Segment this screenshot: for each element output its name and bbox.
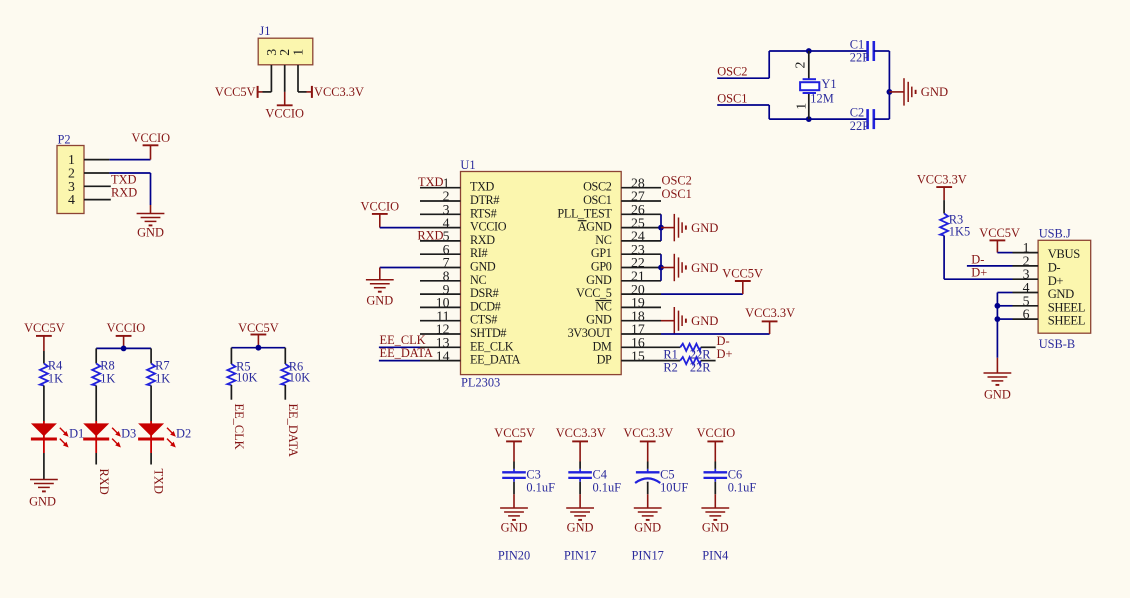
- svg-text:1K5: 1K5: [949, 225, 970, 239]
- svg-text:3V3OUT: 3V3OUT: [568, 326, 613, 340]
- wire P2 pin1 to VCCIO: [84, 159, 151, 161]
- svg-text:1: 1: [794, 103, 809, 110]
- wire R7 to D2: [150, 386, 152, 422]
- svg-text:OSC1: OSC1: [717, 91, 747, 105]
- power port VCCIO at C6: [697, 426, 736, 461]
- svg-text:0.1uF: 0.1uF: [728, 480, 757, 494]
- wire U1 pin4: [380, 227, 420, 229]
- LED D1: [31, 421, 84, 453]
- power port VCC5V at C3: [494, 426, 535, 461]
- U1 pin 2 DTR#: [420, 189, 499, 207]
- U1 pin 26 PLL_TEST: [557, 202, 661, 220]
- wire C6 to ground: [714, 482, 716, 508]
- svg-text:GND: GND: [984, 387, 1011, 401]
- svg-text:GP1: GP1: [591, 246, 612, 260]
- svg-text:RXD: RXD: [417, 228, 443, 242]
- svg-text:VCCIO: VCCIO: [697, 426, 736, 440]
- ground at C3: [500, 508, 528, 535]
- USB pin 4 GND: [1013, 280, 1075, 301]
- ground at C4: [566, 508, 594, 535]
- svg-text:D-: D-: [971, 252, 984, 266]
- U1 pin 16 DM: [593, 335, 661, 353]
- svg-text:VCCIO: VCCIO: [107, 321, 146, 335]
- wire EE_DATA at U1 pin14: [379, 360, 420, 362]
- svg-text:DM: DM: [593, 339, 612, 353]
- power port VCCIO at P2: [132, 131, 171, 160]
- svg-text:1K: 1K: [100, 372, 115, 386]
- USB pin 1 VBUS: [1013, 240, 1081, 261]
- resistor R4 1K: [40, 351, 63, 386]
- svg-text:R8: R8: [100, 359, 114, 373]
- svg-text:D3: D3: [121, 426, 136, 440]
- svg-text:VCC5V: VCC5V: [24, 321, 65, 335]
- power port VCC3.3V at C5: [623, 426, 673, 461]
- svg-text:D+: D+: [1048, 274, 1064, 288]
- svg-text:D+: D+: [971, 266, 987, 280]
- U1 pin 7 GND: [420, 255, 496, 273]
- svg-text:0.1uF: 0.1uF: [593, 480, 622, 494]
- wire U1 pin20 VCC_5: [661, 293, 743, 295]
- svg-text:TXD: TXD: [418, 175, 444, 189]
- U1 pin 17 3V3OUT: [568, 322, 661, 340]
- wire C1 to gnd corner: [874, 51, 890, 119]
- svg-text:22R: 22R: [690, 361, 711, 375]
- U1 pin 27 OSC1: [583, 189, 661, 207]
- svg-text:GND: GND: [634, 521, 661, 535]
- wire VCCIO rail: [96, 348, 151, 363]
- svg-text:SHEEL: SHEEL: [1048, 300, 1085, 314]
- svg-text:EE_CLK: EE_CLK: [470, 339, 514, 353]
- U1 pin 11 CTS#: [420, 308, 497, 326]
- U1 pin 24 NC: [595, 229, 661, 247]
- svg-text:OSC2: OSC2: [717, 65, 747, 79]
- svg-text:VCCIO: VCCIO: [470, 220, 507, 234]
- svg-text:D2: D2: [176, 426, 191, 440]
- wire pins 26-24 tie: [660, 214, 662, 241]
- wire J1 pin1: [298, 65, 307, 92]
- resistor R7 1K: [147, 359, 170, 386]
- svg-text:USB.J: USB.J: [1039, 227, 1071, 241]
- wire OSC2: [717, 51, 867, 78]
- svg-text:VCCIO: VCCIO: [265, 107, 304, 121]
- wire C4 to ground: [579, 482, 581, 508]
- USB pin 6 SHEEL: [1013, 307, 1086, 328]
- power port VCC5V at J1: [215, 85, 263, 99]
- svg-text:C6: C6: [728, 467, 742, 481]
- svg-text:C4: C4: [593, 467, 607, 481]
- U1 pin 8 NC: [420, 269, 486, 287]
- wire D3 to RXD: [95, 453, 97, 465]
- resistor R8 1K: [92, 359, 115, 386]
- svg-text:SHTD#: SHTD#: [470, 326, 506, 340]
- svg-text:GND: GND: [29, 495, 56, 509]
- svg-text:EE_CLK: EE_CLK: [232, 404, 246, 450]
- svg-text:VCC3.3V: VCC3.3V: [745, 306, 795, 320]
- svg-text:GND: GND: [567, 521, 594, 535]
- svg-text:GND: GND: [702, 521, 729, 535]
- svg-text:VCCIO: VCCIO: [361, 200, 400, 214]
- ground at U1 pin18: [661, 307, 718, 334]
- U1 pin 23 GP1: [591, 242, 661, 260]
- U1 pin 3 RTS#: [420, 202, 497, 220]
- wire R5 R6 rail: [231, 348, 285, 364]
- LED D3: [83, 421, 136, 453]
- U1 pin 21 GND: [586, 269, 661, 287]
- power port VCC3.3V at U1 pin17: [745, 306, 795, 334]
- resistor R1 22R: [661, 344, 716, 362]
- U1 pin 18 GND: [586, 308, 661, 326]
- ground at U1 pin7: [366, 268, 394, 308]
- capacitor C5 10UF: [635, 462, 688, 495]
- svg-text:12M: 12M: [810, 91, 833, 105]
- svg-text:VCC3.3V: VCC3.3V: [623, 426, 673, 440]
- power port VCC5V at USB pin1: [979, 226, 1020, 252]
- svg-text:GND: GND: [691, 314, 718, 328]
- ground at D1: [29, 480, 58, 509]
- svg-text:RXD: RXD: [97, 469, 111, 495]
- ground at crystal: [889, 78, 948, 105]
- svg-text:NC: NC: [470, 273, 486, 287]
- U1 pin 6 RI#: [420, 242, 487, 260]
- svg-text:VCC5V: VCC5V: [494, 426, 535, 440]
- ground at C6: [701, 508, 729, 535]
- svg-text:22R: 22R: [690, 347, 711, 361]
- svg-text:GND: GND: [586, 273, 612, 287]
- connector J1: [258, 24, 313, 65]
- node R5 R6 rail: [256, 345, 262, 351]
- ground at P2: [137, 205, 165, 239]
- svg-text:PIN17: PIN17: [564, 548, 596, 562]
- svg-text:14: 14: [436, 348, 450, 363]
- svg-text:10K: 10K: [236, 371, 257, 385]
- wire C5 to ground: [647, 482, 649, 508]
- svg-text:R2: R2: [663, 361, 677, 375]
- svg-text:VCC3.3V: VCC3.3V: [314, 85, 364, 99]
- svg-text:OSC2: OSC2: [662, 174, 692, 188]
- svg-text:10UF: 10UF: [660, 480, 688, 494]
- ground at U1 pin25: [661, 214, 718, 241]
- wire USB pin4-6 GND: [997, 293, 1012, 358]
- resistor R2 22R: [661, 357, 716, 375]
- svg-text:GND: GND: [586, 313, 612, 327]
- svg-text:NC: NC: [595, 233, 611, 247]
- svg-text:EE_CLK: EE_CLK: [380, 333, 426, 347]
- capacitor C3 0.1uF: [502, 462, 555, 495]
- power port VCC3.3V at R3: [917, 172, 967, 200]
- svg-text:TXD: TXD: [152, 469, 166, 495]
- svg-text:NC: NC: [595, 299, 611, 313]
- svg-text:1: 1: [291, 49, 306, 56]
- svg-text:15: 15: [631, 348, 645, 363]
- power port VCC3.3V at C4: [556, 426, 606, 461]
- svg-text:Y1: Y1: [821, 77, 836, 91]
- svg-text:6: 6: [1023, 307, 1030, 322]
- svg-text:1K: 1K: [155, 372, 170, 386]
- U1 pin 22 GP0: [591, 255, 661, 273]
- power port VCC5V at U1 pin20: [722, 267, 763, 295]
- svg-text:PIN17: PIN17: [632, 548, 664, 562]
- node gnd corner: [887, 89, 893, 95]
- capacitor C2 22P: [850, 106, 874, 134]
- svg-text:VCC5V: VCC5V: [215, 85, 256, 99]
- svg-text:J1: J1: [259, 24, 270, 38]
- svg-text:CTS#: CTS#: [470, 313, 497, 327]
- svg-text:SHEEL: SHEEL: [1048, 314, 1085, 328]
- svg-text:GND: GND: [1048, 287, 1074, 301]
- svg-text:VCC5V: VCC5V: [238, 321, 279, 335]
- svg-text:EE_DATA: EE_DATA: [470, 353, 521, 367]
- svg-text:C2: C2: [850, 106, 864, 120]
- resistor R3 1K5: [940, 200, 970, 239]
- svg-text:GND: GND: [470, 260, 496, 274]
- svg-text:2: 2: [793, 62, 808, 69]
- svg-text:22P: 22P: [850, 119, 869, 133]
- power port VCC5V at R5 R6: [238, 321, 279, 348]
- svg-text:GP0: GP0: [591, 260, 612, 274]
- U1 pin 28 OSC2: [583, 175, 661, 193]
- connector USB.J body: [1038, 227, 1091, 351]
- wire P2 pin2 to GND: [84, 173, 151, 205]
- U1 pin 4 VCCIO: [420, 215, 507, 233]
- svg-text:R7: R7: [155, 359, 169, 373]
- node U1 pin22: [658, 265, 664, 271]
- ground at USB: [984, 358, 1012, 402]
- svg-text:C5: C5: [660, 467, 674, 481]
- svg-text:RXD: RXD: [111, 186, 137, 200]
- wire below R6: [284, 385, 286, 400]
- svg-text:OSC1: OSC1: [662, 187, 692, 201]
- svg-text:USB-B: USB-B: [1039, 337, 1076, 351]
- capacitor C4 0.1uF: [568, 462, 621, 495]
- svg-text:GND: GND: [691, 221, 718, 235]
- wire OSC1: [717, 105, 867, 119]
- U1 pin 9 DSR#: [420, 282, 499, 300]
- U1 pin 1 TXD: [420, 175, 495, 193]
- wire U1 pin17 3V3OUT: [661, 333, 770, 335]
- node USB pin6: [995, 316, 1001, 322]
- svg-text:DP: DP: [597, 353, 612, 367]
- svg-text:EE_DATA: EE_DATA: [286, 404, 300, 457]
- U1 pin 5 RXD: [420, 229, 495, 247]
- svg-text:RXD: RXD: [470, 233, 495, 247]
- connector P2: [57, 132, 84, 213]
- wire J1 pin3: [263, 65, 272, 92]
- svg-text:GND: GND: [691, 261, 718, 275]
- USB pin 3 D+: [1013, 267, 1064, 288]
- svg-text:OSC2: OSC2: [583, 180, 612, 194]
- svg-text:GND: GND: [366, 293, 393, 307]
- wire R3 to USB pin3: [944, 236, 1012, 280]
- wire USB pin1: [997, 252, 1012, 254]
- LED D2: [138, 421, 191, 453]
- wire below R5: [230, 385, 232, 400]
- svg-text:PL2303: PL2303: [461, 376, 500, 390]
- svg-text:VCCIO: VCCIO: [132, 131, 171, 145]
- svg-text:4: 4: [68, 192, 75, 207]
- node U1 pin25: [658, 225, 664, 231]
- op-amp U1 body: [460, 158, 621, 390]
- wire J1 pin2: [284, 65, 286, 92]
- wire C2 to gnd corner: [874, 118, 890, 120]
- power port VCCIO at J1: [265, 92, 304, 121]
- svg-text:GND: GND: [137, 225, 164, 239]
- resistor R6 10K: [281, 360, 310, 385]
- svg-text:D-: D-: [1048, 261, 1061, 275]
- power port VCC5V at R4: [24, 321, 65, 351]
- svg-text:DTR#: DTR#: [470, 193, 499, 207]
- wire U1 pin7: [380, 267, 420, 269]
- svg-text:R4: R4: [48, 359, 62, 373]
- U1 pin 15 DP: [597, 348, 661, 366]
- svg-text:VCC3.3V: VCC3.3V: [917, 172, 967, 186]
- node crystal top: [806, 48, 812, 54]
- U1 pin 20 VCC_5: [576, 282, 661, 300]
- svg-text:GND: GND: [921, 85, 948, 99]
- svg-text:VCC5V: VCC5V: [722, 267, 763, 281]
- wire D1 to ground: [43, 453, 45, 479]
- capacitor C1 22P: [850, 37, 874, 64]
- svg-text:PIN4: PIN4: [702, 548, 728, 562]
- svg-text:P2: P2: [58, 132, 71, 146]
- svg-text:DSR#: DSR#: [470, 286, 499, 300]
- svg-text:TXD: TXD: [470, 180, 495, 194]
- wire R8 to D3: [95, 386, 97, 422]
- USB pin 5 SHEEL: [1013, 293, 1086, 314]
- U1 pin 25 AGND: [578, 215, 661, 233]
- svg-text:C3: C3: [526, 467, 540, 481]
- svg-text:EE_DATA: EE_DATA: [380, 346, 433, 360]
- capacitor C6 0.1uF: [704, 462, 757, 495]
- svg-text:1K: 1K: [48, 372, 63, 386]
- svg-text:U1: U1: [460, 158, 475, 172]
- svg-text:VCC3.3V: VCC3.3V: [556, 426, 606, 440]
- svg-text:D-: D-: [717, 334, 730, 348]
- power port VCC3.3V at J1: [307, 85, 364, 99]
- svg-text:D+: D+: [717, 347, 733, 361]
- svg-text:VBUS: VBUS: [1048, 247, 1081, 261]
- USB pin 2 D-: [1013, 253, 1061, 274]
- svg-text:RI#: RI#: [470, 246, 487, 260]
- svg-text:R1: R1: [663, 347, 677, 361]
- node USB pin5: [995, 303, 1001, 309]
- wire C3 to ground: [513, 482, 515, 508]
- wire P2 pin4 RXD: [84, 199, 111, 201]
- svg-text:VCC5V: VCC5V: [979, 226, 1020, 240]
- svg-text:AGND: AGND: [578, 220, 612, 234]
- U1 pin 19 NC: [595, 295, 661, 313]
- wire EE_CLK at U1 pin13: [379, 346, 420, 348]
- svg-text:10K: 10K: [289, 371, 310, 385]
- wire pins 23-21 tie: [660, 254, 662, 281]
- svg-text:RTS#: RTS#: [470, 206, 497, 220]
- svg-text:PLL_TEST: PLL_TEST: [557, 206, 612, 220]
- U1 pin 14 EE_DATA: [420, 348, 521, 366]
- resistor R5 10K: [227, 360, 257, 385]
- node crystal bottom: [806, 116, 812, 122]
- svg-text:22P: 22P: [850, 51, 869, 65]
- wire R4 to D1: [43, 386, 45, 422]
- ground at C5: [634, 508, 662, 535]
- crystal Y1: [793, 51, 837, 119]
- svg-text:DCD#: DCD#: [470, 299, 501, 313]
- power port VCCIO at U1 pin4: [361, 200, 400, 228]
- svg-text:0.1uF: 0.1uF: [526, 480, 555, 494]
- U1 pin 12 SHTD#: [420, 322, 506, 340]
- ground at U1 pin22: [661, 254, 718, 281]
- svg-text:D1: D1: [69, 426, 84, 440]
- svg-text:GND: GND: [501, 521, 528, 535]
- wire D2 to TXD: [150, 453, 152, 465]
- svg-text:C1: C1: [850, 37, 864, 51]
- svg-text:OSC1: OSC1: [583, 193, 612, 207]
- wire P2 pin3 TXD: [84, 185, 111, 187]
- svg-text:VCC_5: VCC_5: [576, 286, 612, 300]
- svg-text:PIN20: PIN20: [498, 548, 530, 562]
- U1 pin 13 EE_CLK: [420, 335, 514, 353]
- power port VCCIO at LEDs: [107, 321, 146, 348]
- node VCCIO rail: [121, 346, 127, 352]
- U1 pin 10 DCD#: [420, 295, 501, 313]
- wire USB pin2 D-: [967, 265, 1013, 267]
- svg-text:TXD: TXD: [111, 172, 137, 186]
